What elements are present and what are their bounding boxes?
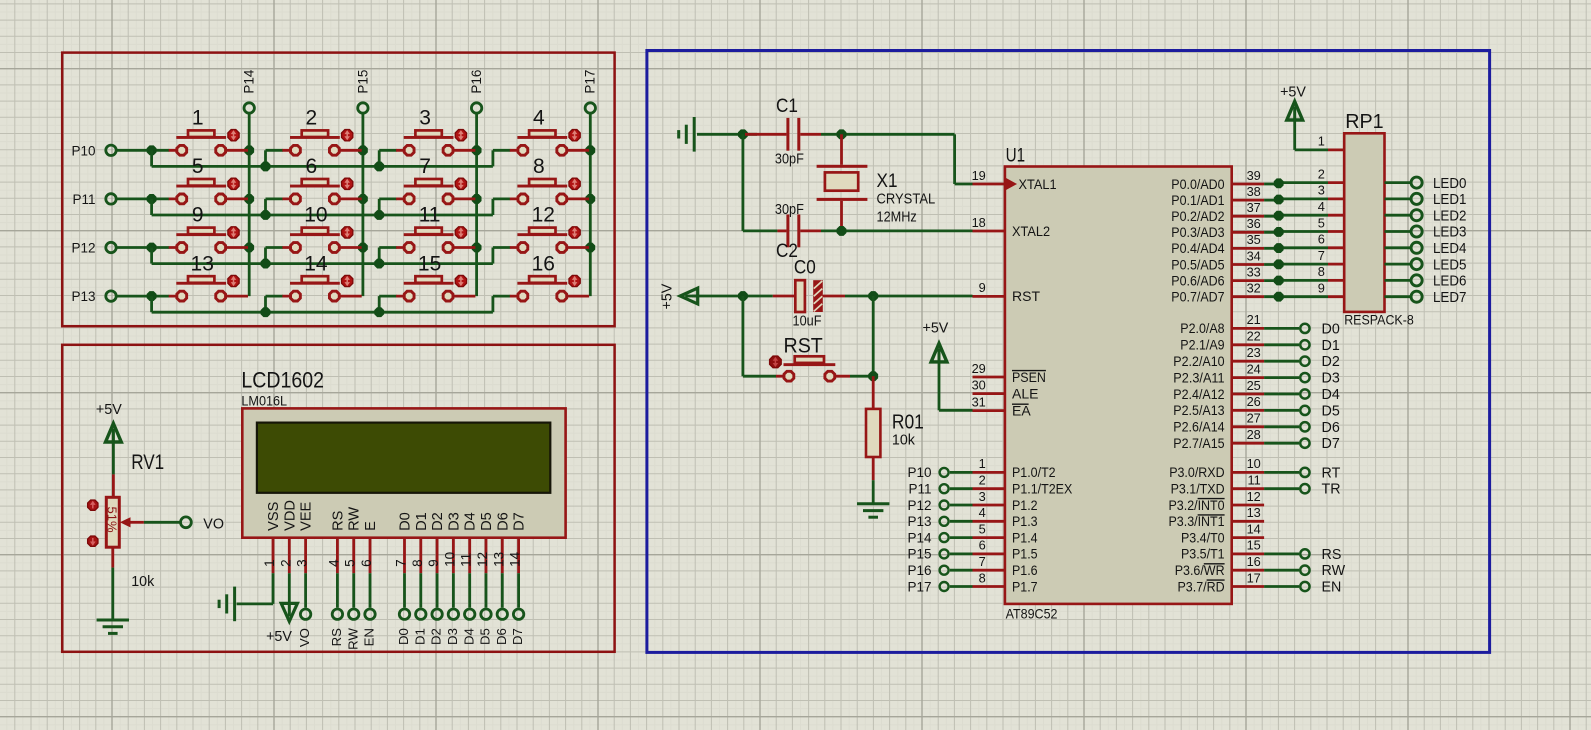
- terminal P16 (MCU side): [907, 563, 948, 578]
- svg-text:22: 22: [1247, 329, 1261, 344]
- svg-text:33: 33: [1247, 264, 1261, 279]
- svg-text:RESPACK-8: RESPACK-8: [1344, 313, 1414, 328]
- wire P11 to U1: [950, 487, 973, 490]
- wire C2 to XTAL2: [821, 226, 973, 235]
- svg-text:P13: P13: [71, 289, 95, 304]
- svg-text:+5V: +5V: [660, 283, 676, 309]
- U1 pin 14 (P3.4/T0): [1181, 521, 1264, 545]
- svg-text:7: 7: [979, 554, 986, 569]
- wire P13 to U1: [950, 520, 973, 523]
- svg-text:P2.0/A8: P2.0/A8: [1180, 320, 1224, 336]
- wire P0.1 to RP1: [1264, 195, 1328, 204]
- svg-text:D4: D4: [461, 628, 476, 645]
- svg-text:D2: D2: [430, 512, 446, 531]
- svg-text:1: 1: [1318, 134, 1325, 149]
- svg-text:TR: TR: [1322, 482, 1341, 498]
- wire P0.7 to RP1: [1264, 292, 1328, 301]
- wire P2.6 to D6: [1264, 425, 1299, 428]
- LCD pin 2 (VDD): [278, 538, 293, 574]
- terminal D5 (LCD): [478, 609, 493, 645]
- LCD pin 12 (D5): [475, 538, 490, 574]
- svg-text:14: 14: [508, 551, 523, 567]
- svg-text:D5: D5: [478, 628, 493, 645]
- svg-text:16: 16: [1247, 554, 1261, 569]
- svg-text:36: 36: [1247, 216, 1261, 231]
- svg-text:27: 27: [1247, 411, 1261, 426]
- svg-text:8: 8: [979, 570, 986, 585]
- terminal D2 (LCD): [429, 609, 444, 645]
- U1 pin 23 (P2.2/A10): [1173, 345, 1264, 369]
- terminal LED6: [1411, 273, 1466, 290]
- terminal D4: [1300, 387, 1340, 403]
- svg-text:12: 12: [532, 204, 555, 227]
- wire P12 to U1: [950, 504, 973, 507]
- power +5V (RP1): [1280, 85, 1306, 121]
- RP1 pin 4: [1318, 199, 1344, 215]
- svg-text:VEE: VEE: [299, 501, 315, 530]
- terminal LED1: [1411, 191, 1466, 208]
- svg-text:RT: RT: [1322, 465, 1341, 481]
- U1 pin 19 (XTAL1): [972, 168, 1057, 192]
- svg-text:6: 6: [359, 559, 374, 567]
- svg-text:10: 10: [304, 204, 327, 227]
- terminal LED4: [1411, 240, 1466, 257]
- keypad enclosure box: [62, 53, 614, 327]
- resistor R01: [866, 376, 924, 480]
- svg-text:P2.2/A10: P2.2/A10: [1173, 353, 1224, 369]
- terminal P14 (keypad column 1): [242, 69, 257, 113]
- U1 pin 11 (P3.1/TXD): [1171, 473, 1265, 497]
- U1 pin 7 (P1.6): [973, 554, 1038, 578]
- wire RP1 to LED1: [1385, 197, 1411, 200]
- svg-text:51%: 51%: [105, 507, 120, 533]
- svg-text:D4: D4: [1322, 387, 1340, 403]
- push button 9: [169, 204, 248, 253]
- terminal EN (LCD): [362, 609, 377, 646]
- svg-text:LED7: LED7: [1433, 289, 1466, 306]
- svg-text:VO: VO: [297, 628, 312, 647]
- push button 6: [282, 155, 361, 204]
- svg-text:P17: P17: [583, 70, 598, 94]
- svg-text:28: 28: [1247, 427, 1261, 442]
- wire P2.5 to D5: [1264, 409, 1299, 412]
- terminal P12 (keypad row 3): [71, 241, 116, 256]
- power +5V (EA pin): [923, 321, 949, 362]
- wire RP1 to LED3: [1385, 230, 1411, 233]
- U1 pin 26 (P2.5/A13): [1173, 394, 1264, 418]
- ground (crystal): [679, 117, 695, 152]
- svg-text:18: 18: [972, 215, 986, 230]
- svg-text:P0.5/AD5: P0.5/AD5: [1171, 256, 1224, 272]
- svg-text:VDD: VDD: [282, 500, 298, 531]
- wire C1 to C2 (ground net): [743, 134, 778, 231]
- svg-text:10uF: 10uF: [793, 314, 822, 330]
- U1 pin 4 (P1.3): [973, 505, 1038, 529]
- svg-text:14: 14: [1247, 521, 1261, 536]
- push button 12: [510, 204, 589, 253]
- power +5V (RV1): [96, 402, 122, 442]
- svg-text:P0.6/AD6: P0.6/AD6: [1171, 272, 1224, 288]
- svg-text:P2.3/A11: P2.3/A11: [1173, 369, 1224, 385]
- ground (R01): [857, 504, 889, 517]
- resistor pack RP1 body: [1344, 133, 1384, 312]
- U1 pin 18 (XTAL2): [972, 215, 1051, 239]
- svg-text:RST: RST: [1012, 288, 1040, 304]
- terminal D4 (LCD): [461, 609, 476, 645]
- svg-text:11: 11: [1248, 473, 1261, 488]
- svg-text:P16: P16: [907, 563, 931, 578]
- svg-text:P10: P10: [907, 465, 931, 480]
- U1 pin 8 (P1.7): [973, 570, 1038, 594]
- svg-text:11: 11: [419, 204, 441, 227]
- wire P17 to U1: [950, 585, 973, 588]
- svg-text:24: 24: [1247, 361, 1261, 376]
- LCD pin 10 (D3): [442, 538, 457, 574]
- svg-text:X1: X1: [877, 171, 898, 192]
- svg-text:30pF: 30pF: [775, 151, 804, 167]
- svg-text:+5V: +5V: [923, 321, 949, 337]
- wire RP1 to LED6: [1385, 279, 1411, 282]
- terminal D1 (LCD): [412, 609, 427, 645]
- svg-text:31: 31: [972, 394, 986, 409]
- svg-text:P0.7/AD7: P0.7/AD7: [1171, 289, 1224, 305]
- svg-text:15: 15: [418, 252, 441, 275]
- svg-text:P10: P10: [71, 143, 95, 158]
- ground (LCD VSS): [219, 587, 235, 622]
- svg-text:9: 9: [979, 280, 986, 295]
- MCU enclosure box: [647, 51, 1490, 653]
- svg-text:RW: RW: [347, 507, 363, 531]
- wire +5V to EA: [939, 361, 973, 411]
- LCD pin 7 (D0): [394, 538, 409, 574]
- wire P15 to U1: [950, 553, 973, 556]
- svg-text:LCD1602: LCD1602: [241, 367, 324, 392]
- svg-text:P12: P12: [907, 498, 931, 513]
- push button 2: [282, 107, 361, 156]
- svg-text:9: 9: [192, 204, 204, 227]
- LCD pin 5 (RW): [343, 538, 358, 574]
- U1 pin 25 (P2.4/A12): [1173, 378, 1264, 402]
- svg-text:P1.3: P1.3: [1012, 513, 1038, 529]
- wire P2.0 to D0: [1264, 327, 1299, 330]
- RP1 pin 7: [1318, 248, 1344, 264]
- U1 pin 27 (P2.6/A14): [1173, 411, 1264, 435]
- svg-text:1: 1: [262, 559, 277, 567]
- push button 10: [282, 204, 361, 253]
- push button 13: [169, 252, 248, 301]
- svg-text:3: 3: [419, 107, 431, 130]
- svg-text:1: 1: [192, 107, 204, 130]
- svg-text:38: 38: [1247, 184, 1261, 199]
- wire C1 to XTAL1: [821, 130, 973, 184]
- terminal TR: [1300, 482, 1340, 498]
- terminal VO (LCD): [297, 609, 312, 647]
- wire P0.4 to RP1: [1264, 244, 1328, 253]
- wire P3.6 to RW: [1264, 569, 1299, 572]
- svg-text:P2.1/A9: P2.1/A9: [1180, 337, 1224, 353]
- U1 pin 38 (P0.1/AD1): [1171, 184, 1264, 208]
- svg-text:LED6: LED6: [1433, 273, 1466, 290]
- svg-text:P13: P13: [907, 514, 931, 529]
- svg-text:12: 12: [475, 552, 490, 567]
- wire P16 to U1: [950, 569, 973, 572]
- push button 5: [169, 155, 248, 204]
- U1 pin 2 (P1.1/T2EX): [973, 473, 1073, 497]
- svg-text:10k: 10k: [131, 574, 155, 590]
- terminal D2: [1300, 354, 1340, 370]
- terminal D0 (LCD): [396, 609, 411, 645]
- RP1 pin 2: [1318, 166, 1344, 182]
- svg-text:+5V: +5V: [96, 402, 122, 418]
- svg-text:4: 4: [326, 559, 341, 567]
- wires LCD pins to terminals: [237, 573, 519, 616]
- U1 pin 37 (P0.2/AD2): [1171, 200, 1264, 224]
- svg-text:D5: D5: [479, 512, 495, 531]
- svg-text:LED5: LED5: [1433, 256, 1466, 273]
- terminal RW (LCD): [345, 609, 360, 650]
- terminal D7: [1300, 436, 1340, 452]
- terminal P13 (keypad row 4): [71, 289, 116, 304]
- svg-text:LED0: LED0: [1433, 175, 1466, 192]
- LCD pin 11 (D4): [459, 538, 474, 574]
- power +5V (LCD VDD): [266, 603, 297, 645]
- svg-text:RW: RW: [1322, 563, 1346, 579]
- wire P0.5 to RP1: [1264, 260, 1328, 269]
- wire P3.5 to RS: [1264, 553, 1299, 556]
- wire RP1 to LED4: [1385, 246, 1411, 249]
- capacitor C1: [745, 96, 821, 167]
- svg-text:P3.5/T1: P3.5/T1: [1181, 546, 1225, 562]
- svg-text:14: 14: [304, 252, 328, 275]
- U1 pin 34 (P0.5/AD5): [1171, 248, 1264, 272]
- terminal P13 (MCU side): [907, 514, 948, 529]
- U1 pin 33 (P0.6/AD6): [1171, 264, 1264, 288]
- wire P12 row net: [117, 243, 510, 268]
- terminal P17 (keypad column 4): [583, 70, 598, 114]
- svg-text:LM016L: LM016L: [241, 393, 287, 409]
- svg-text:9: 9: [1318, 281, 1325, 296]
- svg-text:1: 1: [979, 456, 986, 471]
- svg-text:3: 3: [1318, 183, 1325, 198]
- wire +5V to C0: [692, 291, 773, 300]
- svg-text:P17: P17: [907, 579, 931, 594]
- LCD pin 13 (D6): [491, 538, 506, 574]
- potentiometer RV1: [88, 474, 144, 567]
- terminal P15 (keypad column 2): [355, 70, 370, 114]
- svg-text:D1: D1: [1322, 338, 1340, 354]
- wire P2.3 to D3: [1264, 376, 1299, 379]
- push button 3: [396, 107, 475, 156]
- svg-text:12MHz: 12MHz: [877, 210, 917, 226]
- LCD pin 9 (D2): [426, 538, 441, 574]
- wire P0.0 to RP1: [1264, 179, 1328, 188]
- svg-text:23: 23: [1247, 345, 1261, 360]
- svg-text:CRYSTAL: CRYSTAL: [877, 192, 936, 208]
- LCD pin 8 (D1): [410, 538, 425, 574]
- terminal D5: [1300, 403, 1340, 419]
- power +5V (RST line): [660, 283, 698, 309]
- svg-text:30pF: 30pF: [775, 202, 804, 218]
- svg-text:RST: RST: [784, 335, 823, 358]
- svg-text:26: 26: [1247, 394, 1261, 409]
- svg-text:P2.4/A12: P2.4/A12: [1173, 386, 1224, 402]
- wire P2.1 to D1: [1264, 343, 1299, 346]
- wire ground to C1: [697, 130, 757, 139]
- U1 pin 15 (P3.5/T1): [1181, 538, 1264, 562]
- svg-text:5: 5: [192, 155, 204, 178]
- U1 pin 5 (P1.4): [973, 521, 1038, 545]
- svg-text:D0: D0: [396, 628, 411, 645]
- svg-text:8: 8: [533, 155, 545, 178]
- terminal P17 (MCU side): [907, 579, 948, 594]
- wire +5V to RP1 pin 1: [1295, 119, 1328, 150]
- U1 pin 28 (P2.7/A15): [1173, 427, 1264, 451]
- U1 pin 31 (EA): [972, 394, 1032, 418]
- terminal D6: [1300, 420, 1340, 436]
- svg-text:RS: RS: [1322, 547, 1342, 563]
- svg-text:D1: D1: [412, 628, 427, 645]
- LCD pin 6 (E): [359, 538, 374, 574]
- U1 pin 24 (P2.3/A11): [1173, 361, 1264, 385]
- svg-text:P14: P14: [907, 530, 932, 545]
- wire +5V to RV1: [112, 441, 115, 474]
- svg-text:P2.7/A15: P2.7/A15: [1173, 435, 1224, 451]
- terminal P14 (MCU side): [907, 530, 948, 545]
- svg-text:13: 13: [491, 552, 506, 567]
- terminal LED3: [1411, 224, 1466, 241]
- svg-text:6: 6: [979, 538, 986, 553]
- U1 pin 39 (P0.0/AD0): [1171, 168, 1264, 192]
- terminal P11 (MCU side): [908, 482, 948, 497]
- terminal VO (RV1): [181, 516, 224, 532]
- wire P10 row net: [117, 146, 510, 171]
- terminal P10 (keypad row 1): [71, 143, 116, 158]
- U1 pin 32 (P0.7/AD7): [1171, 281, 1264, 305]
- svg-text:D6: D6: [494, 628, 509, 645]
- svg-text:13: 13: [191, 252, 214, 275]
- svg-text:P1.5: P1.5: [1012, 546, 1038, 562]
- LCD pin 4 (RS): [326, 538, 341, 574]
- svg-text:C0: C0: [794, 257, 816, 278]
- svg-text:9: 9: [426, 559, 441, 567]
- svg-text:P2.6/A14: P2.6/A14: [1173, 419, 1224, 435]
- RP1 pin 6: [1318, 232, 1344, 248]
- push button 8: [510, 155, 589, 204]
- push button 7: [396, 155, 475, 204]
- svg-text:17: 17: [1247, 570, 1261, 585]
- svg-text:19: 19: [972, 168, 986, 183]
- terminal P16 (keypad column 3): [469, 70, 484, 114]
- wire P3.1 to TR: [1264, 487, 1299, 490]
- svg-text:+5V: +5V: [266, 629, 292, 645]
- svg-text:7: 7: [1318, 248, 1325, 263]
- svg-text:6: 6: [306, 155, 318, 178]
- wire RP1 to LED5: [1385, 263, 1411, 266]
- svg-text:8: 8: [410, 559, 425, 567]
- U1 pin 22 (P2.1/A9): [1180, 329, 1264, 353]
- U1 pin 3 (P1.2): [973, 489, 1038, 513]
- svg-text:EN: EN: [1322, 580, 1342, 596]
- svg-text:D7: D7: [510, 628, 525, 645]
- svg-text:XTAL1: XTAL1: [1019, 176, 1057, 192]
- svg-text:P0.1/AD1: P0.1/AD1: [1171, 192, 1224, 208]
- svg-text:P3.1/TXD: P3.1/TXD: [1171, 481, 1225, 497]
- svg-text:16: 16: [532, 252, 555, 275]
- svg-text:D6: D6: [1322, 420, 1340, 436]
- U1 pin 17 (P3.7/RD): [1178, 570, 1265, 594]
- svg-text:30: 30: [972, 377, 986, 392]
- svg-text:P0.2/AD2: P0.2/AD2: [1171, 208, 1224, 224]
- terminal RT: [1300, 465, 1340, 481]
- svg-text:XTAL2: XTAL2: [1012, 223, 1050, 239]
- svg-text:D3: D3: [446, 512, 462, 531]
- svg-text:10: 10: [1247, 456, 1261, 471]
- U1 pin 1 (P1.0/T2): [973, 456, 1056, 480]
- wire RP1 to LED2: [1385, 214, 1411, 217]
- wire P10 to U1: [950, 471, 973, 474]
- terminal P11 (keypad row 2): [72, 192, 116, 207]
- wire P2.2 to D2: [1264, 360, 1299, 363]
- LCD enclosure box: [62, 345, 614, 652]
- terminal P10 (MCU side): [907, 465, 948, 480]
- svg-text:VO: VO: [203, 516, 224, 532]
- RP1 pin 9: [1318, 281, 1344, 297]
- svg-text:LED2: LED2: [1433, 207, 1466, 224]
- terminal D3 (LCD): [445, 609, 460, 645]
- svg-text:C1: C1: [776, 96, 798, 117]
- wire P3.0 to RT: [1264, 471, 1299, 474]
- terminal LED0: [1411, 175, 1466, 192]
- svg-text:+5V: +5V: [1280, 85, 1306, 101]
- svg-text:4: 4: [979, 505, 986, 520]
- svg-text:D3: D3: [1322, 371, 1340, 387]
- svg-text:P1.0/T2: P1.0/T2: [1012, 464, 1056, 480]
- terminal D1: [1300, 338, 1340, 354]
- svg-text:U1: U1: [1006, 145, 1026, 167]
- svg-text:3: 3: [295, 559, 310, 567]
- RP1 pin 8: [1318, 264, 1344, 280]
- svg-text:P2.5/A13: P2.5/A13: [1173, 402, 1224, 418]
- wire RV1 wiper to VO: [144, 521, 180, 524]
- svg-text:EN: EN: [362, 628, 377, 646]
- terminal D7 (LCD): [510, 609, 525, 645]
- svg-text:RP1: RP1: [1345, 111, 1383, 133]
- wire P13 row net: [117, 292, 510, 317]
- svg-text:P3.0/RXD: P3.0/RXD: [1169, 464, 1224, 480]
- U1 pin 35 (P0.4/AD4): [1171, 232, 1264, 256]
- svg-text:2: 2: [979, 473, 986, 488]
- svg-text:6: 6: [1318, 232, 1325, 247]
- svg-text:25: 25: [1247, 378, 1261, 393]
- svg-text:34: 34: [1247, 248, 1261, 263]
- push button 11: [396, 204, 475, 253]
- crystal X1: [817, 134, 936, 231]
- U1 pin 29 (PSEN): [972, 361, 1046, 385]
- U1 pin 10 (P3.0/RXD): [1169, 456, 1264, 480]
- terminal RS (LCD): [329, 609, 344, 646]
- svg-text:D7: D7: [1322, 436, 1340, 452]
- U1 pin 30 (ALE): [972, 377, 1039, 401]
- RP1 pin 1: [1318, 134, 1344, 150]
- svg-text:RV1: RV1: [131, 451, 164, 474]
- svg-text:5: 5: [979, 521, 986, 536]
- U1 pin 21 (P2.0/A8): [1180, 312, 1264, 336]
- svg-text:2: 2: [1318, 166, 1325, 181]
- svg-text:D0: D0: [1322, 321, 1340, 337]
- wire P0.2 to RP1: [1264, 211, 1328, 220]
- terminal LED5: [1411, 256, 1466, 273]
- svg-text:10: 10: [442, 552, 457, 567]
